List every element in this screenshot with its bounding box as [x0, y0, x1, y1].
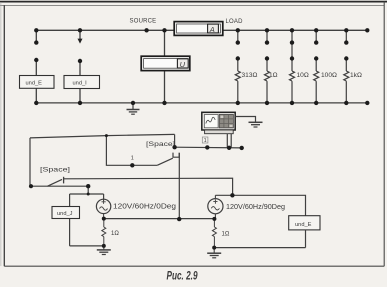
- svg-text:1: 1: [131, 156, 134, 162]
- connector box und_E: [20, 76, 55, 89]
- svg-text:und_I: und_I: [73, 80, 88, 86]
- junction (164.5,102.9): [162, 101, 166, 105]
- svg-text:1kΩ: 1kΩ: [350, 72, 362, 79]
- junction (88.2,194): [87, 193, 90, 196]
- ac source V1 circle: [96, 199, 110, 213]
- resistor R5: [344, 71, 349, 81]
- junction (36.3,42.6): [34, 40, 38, 44]
- wire top rail left: [36, 29, 174, 31]
- junction (146.6,30.3): [144, 28, 148, 32]
- resistor R3: [290, 71, 295, 81]
- junction (316.2,30.3): [314, 28, 318, 32]
- junction (36.3,30.3): [34, 28, 38, 32]
- junction (267,42.6): [265, 40, 269, 44]
- svg-text:[Space]: [Space]: [40, 166, 70, 173]
- wire parallel link: [64, 178, 233, 195]
- junction (232.4,195.3): [230, 193, 234, 197]
- svg-text:A: A: [209, 25, 215, 34]
- switch S2 lever: [157, 158, 173, 165]
- junction (237.8,42.6): [236, 40, 240, 44]
- svg-text:100Ω: 100Ω: [321, 72, 337, 79]
- svg-text:Рис. 2.9: Рис. 2.9: [167, 271, 198, 283]
- wire bus drop to oscilloscope node: [174, 134, 176, 147]
- junction (179.2,219.1): [177, 217, 181, 221]
- svg-text:1Ω: 1Ω: [111, 231, 119, 237]
- junction (241.7,147.9): [240, 146, 244, 150]
- junction (346.3,30.3): [344, 28, 348, 32]
- ground V2: [207, 248, 221, 258]
- junction (267,58.5): [265, 56, 269, 60]
- svg-text:1: 1: [204, 138, 207, 144]
- junction (80,102.9): [78, 101, 82, 105]
- junction (367.3,102.9): [365, 101, 369, 105]
- junction (292,58.5): [290, 56, 294, 60]
- junction (31,186.2): [29, 184, 33, 188]
- wire top rail right: [223, 29, 367, 31]
- junction (346.3,58.5): [344, 56, 348, 60]
- junction (164.5,30.3): [162, 28, 166, 32]
- wire R4 column: [315, 30, 317, 103]
- svg-text:und_E: und_E: [295, 222, 312, 228]
- junction (36.3,102.9): [34, 101, 38, 105]
- junction (103.8,245.9): [102, 244, 106, 248]
- resistor Rm2: [212, 219, 216, 248]
- ground V1: [97, 246, 111, 255]
- resistor R2: [265, 71, 270, 81]
- junction (80,30.3): [78, 28, 82, 32]
- wire column2 lower: [79, 61, 81, 103]
- junction (80,61): [78, 59, 82, 63]
- junction (88.2,186.2): [86, 184, 90, 188]
- wire oscilloscope channel bus: [175, 134, 242, 148]
- junction (316.2,42.6): [314, 40, 318, 44]
- wire und_E to ground rail: [214, 230, 305, 248]
- wire switch S1 base: [31, 185, 88, 187]
- ac source V2: [208, 195, 233, 219]
- wire oscilloscope to ground: [235, 117, 255, 122]
- ground under bottom rail: [127, 103, 140, 114]
- svg-text:LOAD: LOAD: [226, 19, 244, 25]
- wire to und_J and source V1: [70, 186, 104, 246]
- svg-text:10Ω: 10Ω: [297, 72, 309, 79]
- junction (292,30.3): [290, 28, 294, 32]
- junction (237.8,30.3): [236, 28, 240, 32]
- wire bus left drop: [29, 138, 31, 186]
- svg-text:120V/60Hz/0Deg: 120V/60Hz/0Deg: [113, 203, 176, 211]
- ac source V2 circle: [208, 199, 223, 214]
- wire main bus: [30, 134, 175, 138]
- wire column1 lower: [35, 60, 37, 103]
- wire voltmeter lower: [164, 71, 166, 103]
- wire R2 column: [266, 30, 268, 103]
- junction (237.8,58.5): [236, 56, 240, 60]
- resistor bank wires and zigzags: [235, 30, 348, 103]
- junction (106.4,135.6): [105, 134, 108, 137]
- connector box und_J: [52, 207, 80, 219]
- svg-text:SOURCE: SOURCE: [130, 18, 157, 24]
- ammeter A: [174, 22, 223, 36]
- junction (292,42.6): [290, 40, 294, 44]
- junction (267,102.9): [265, 101, 269, 105]
- resistor R1: [235, 71, 240, 81]
- svg-text:[Space]: [Space]: [146, 141, 175, 148]
- wire bus mid drop: [106, 136, 157, 166]
- switch S1 fixed contact: [63, 177, 65, 184]
- svg-text:313Ω: 313Ω: [242, 72, 258, 79]
- connector box und_I: [64, 76, 100, 89]
- ground oscilloscope: [249, 122, 263, 127]
- wire R3 column closed switch: [291, 30, 293, 103]
- junction (346.3,102.9): [344, 101, 348, 105]
- oscilloscope XSC: [202, 112, 235, 133]
- svg-text:120V/60Hz/90Deg: 120V/60Hz/90Deg: [226, 203, 285, 211]
- junction (267,30.3): [265, 28, 269, 32]
- wire R5 column: [345, 30, 347, 103]
- switch S2 fixed contact: [173, 153, 179, 158]
- junction (229.1,147.8): [227, 146, 231, 150]
- wire R1 column: [237, 30, 239, 103]
- wire voltmeter upper: [164, 30, 166, 56]
- wire column2 upper stub: [79, 30, 81, 39]
- junction (237.8,102.9): [236, 101, 240, 105]
- switch S1 lever: [48, 179, 63, 186]
- wire column1 upper stub: [35, 30, 37, 42]
- wire switch S2 drop: [178, 153, 180, 219]
- voltmeter U: [141, 56, 190, 70]
- junction (36.3,60): [34, 58, 38, 62]
- junction (174.6,147.2): [172, 145, 176, 149]
- junction (316.2,58.5): [314, 56, 318, 60]
- junction (132.3,165.3): [130, 163, 134, 167]
- ac source V1: [96, 199, 110, 218]
- junction (316.2,102.9): [314, 101, 318, 105]
- connector box und_E2: [289, 216, 320, 230]
- svg-text:1Ω: 1Ω: [222, 232, 230, 238]
- svg-text:U: U: [180, 60, 186, 69]
- junction (207.3,147.4): [205, 145, 209, 149]
- svg-text:und_J: und_J: [57, 211, 73, 217]
- resistor Rm1: [102, 219, 106, 246]
- junction (367.3,30.3): [365, 28, 369, 32]
- junction (103.8,218.6): [102, 217, 106, 221]
- arrow connector on column2: [78, 39, 83, 44]
- wire bottom rail: [36, 102, 367, 104]
- wire V2 top to und_E: [232, 195, 305, 215]
- junction (292,102.9): [290, 101, 294, 105]
- junction (214.4,218.9): [212, 217, 216, 221]
- svg-text:1Ω: 1Ω: [269, 72, 278, 79]
- wire between sources: [104, 218, 215, 220]
- resistor R4: [314, 71, 319, 81]
- junction (133,102.9): [131, 101, 135, 105]
- junction (214.2,247.6): [212, 246, 216, 250]
- svg-text:und_E: und_E: [26, 80, 43, 86]
- junction (346.3,42.6): [344, 40, 348, 44]
- key label 1 under oscilloscope: [202, 137, 208, 144]
